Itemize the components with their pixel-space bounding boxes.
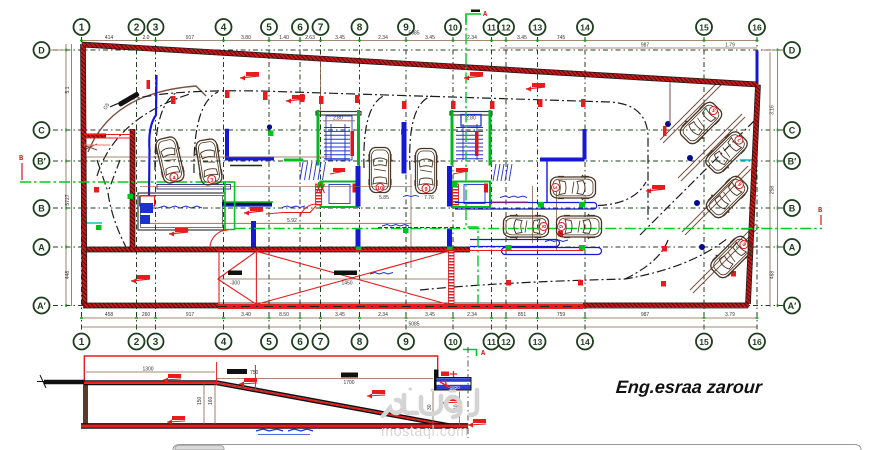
red level flags — [131, 72, 665, 284]
room R1 blue block2 — [140, 215, 150, 224]
section upper slab flat red core — [84, 382, 217, 384]
grid bubble 8 bottom — [352, 334, 368, 350]
svg-text:A′: A′ — [37, 301, 46, 311]
service box G2 inner — [464, 185, 485, 204]
curb bar — [157, 185, 231, 190]
stair core U1 treads — [324, 116, 352, 160]
wheel stop dots — [665, 121, 705, 250]
grid bubble 7 top — [313, 19, 329, 35]
section red flag — [244, 378, 257, 382]
svg-text:10: 10 — [448, 23, 458, 33]
service box G1 red shaft — [316, 184, 322, 205]
svg-text:13: 13 — [533, 337, 543, 347]
grid bubble 9 top — [398, 19, 414, 35]
grid column 12 line — [505, 37, 507, 332]
svg-text:468: 468 — [770, 271, 776, 280]
room R1 red cabinet — [140, 196, 155, 206]
boundary wall top — [82, 45, 759, 85]
stair core U1 right green — [357, 110, 360, 166]
svg-text:B: B — [38, 204, 45, 214]
svg-text:A′: A′ — [788, 301, 797, 311]
svg-text:A: A — [38, 243, 45, 253]
svg-text:3: 3 — [153, 337, 159, 348]
svg-text:-1820: -1820 — [448, 385, 460, 390]
grid column 11 line — [491, 37, 493, 332]
grid bubble B left — [34, 200, 50, 216]
blue label mid — [382, 225, 409, 227]
svg-text:2.80: 2.80 — [466, 116, 476, 122]
blue wall L upper-left — [227, 129, 274, 159]
section right dashed line — [467, 347, 469, 438]
section red flag — [447, 397, 460, 401]
left stub D — [50, 49, 67, 51]
grid bubble A right — [784, 239, 800, 255]
svg-text:7: 7 — [318, 337, 324, 348]
section top boundary line — [84, 356, 437, 383]
grid row Ap line — [53, 305, 786, 307]
svg-text:10: 10 — [448, 337, 458, 347]
blue label small v4 — [403, 195, 419, 196]
svg-text:15: 15 — [699, 337, 709, 347]
drive path lower sweep — [420, 238, 728, 290]
internal wall V1 face lines — [130, 129, 135, 251]
navy wall segment — [222, 202, 272, 205]
svg-text:2.34: 2.34 — [378, 35, 388, 41]
svg-text:5: 5 — [266, 337, 272, 348]
svg-text:5085: 5085 — [408, 31, 419, 37]
grid bubble 11 bottom — [484, 334, 500, 350]
car H2 — [504, 214, 549, 239]
svg-text:1450: 1450 — [341, 281, 352, 287]
section left wall bar — [83, 384, 88, 424]
car H1 — [551, 175, 596, 200]
svg-text:750: 750 — [250, 370, 259, 376]
svg-text:9: 9 — [403, 337, 409, 348]
section street level bar — [44, 380, 84, 385]
dim drop x532 — [532, 186, 534, 243]
grid bubble 7 bottom — [313, 334, 329, 350]
level board blue band top — [437, 378, 471, 382]
right dimension line outer — [777, 52, 779, 307]
drive path entrance arc — [97, 94, 190, 176]
svg-text:D: D — [789, 46, 796, 56]
green square j5 — [268, 131, 274, 137]
car V3 — [368, 148, 393, 193]
boundary wall left face lines — [81, 44, 88, 306]
bottom overall dimension line — [82, 326, 758, 328]
red markers lower — [94, 187, 736, 287]
svg-text:3.80: 3.80 — [241, 35, 251, 41]
blue label walkway — [282, 206, 305, 208]
red underline label — [491, 201, 528, 203]
grid bubble 4 bottom — [216, 334, 232, 350]
ramp left edge — [218, 248, 220, 306]
section line B left — [20, 181, 235, 183]
section red flag — [168, 374, 181, 378]
svg-text:8: 8 — [542, 225, 548, 228]
section line A vertical — [466, 14, 478, 308]
grid bubble 14 bottom — [577, 334, 593, 350]
red V elevator G1 — [317, 184, 325, 193]
section red flag — [372, 390, 385, 394]
car D4 — [707, 232, 756, 281]
svg-text:8.50: 8.50 — [279, 312, 289, 318]
section line B right — [235, 228, 822, 230]
watermark dots — [410, 389, 455, 391]
svg-text:12: 12 — [501, 23, 511, 33]
section line B jog — [234, 182, 236, 229]
grid axis dashed lines — [53, 37, 786, 332]
right stub D — [762, 49, 784, 51]
grid bubble D right — [784, 42, 800, 58]
grid row D line — [53, 49, 786, 51]
blue drain curve — [149, 75, 157, 196]
svg-text:14: 14 — [580, 23, 590, 33]
svg-text:Eng.esraa zarour: Eng.esraa zarour — [615, 377, 763, 397]
svg-text:745: 745 — [557, 35, 566, 41]
svg-text:6: 6 — [557, 225, 563, 228]
svg-text:2.80: 2.80 — [333, 116, 343, 122]
section A bottom marker — [463, 350, 477, 357]
dim drop grid7 — [320, 61, 322, 111]
section level board — [436, 378, 471, 391]
grid column 7 line — [320, 37, 322, 332]
section red flag — [172, 416, 185, 420]
section mid dim verticals — [204, 382, 215, 424]
grid bubble A left — [34, 239, 50, 255]
boundary wall bottom left segment — [83, 303, 218, 308]
boundary wall right face lines — [746, 84, 761, 304]
svg-text:11: 11 — [487, 23, 496, 33]
svg-text:448: 448 — [65, 271, 71, 280]
divider finger C — [455, 203, 597, 210]
blue wall grid16 stub — [756, 51, 759, 85]
blue stub vertical — [251, 221, 256, 250]
svg-text:1: 1 — [79, 23, 85, 34]
stair core U1 dim 2.80 — [323, 120, 355, 122]
ramp dim bar 300 — [228, 271, 242, 276]
grid column 8 line — [359, 37, 361, 332]
grid bubble 9 bottom — [398, 334, 414, 350]
level board blue band bottom — [437, 385, 471, 390]
blue under navy — [222, 205, 272, 207]
internal wall W1 horizontal — [87, 247, 470, 252]
stair core U2 treads — [456, 124, 483, 160]
boundary wall right — [748, 85, 758, 305]
car D3 — [702, 172, 751, 221]
section inner dim line — [86, 371, 215, 373]
svg-text:260: 260 — [142, 312, 151, 318]
grid bubble 2 bottom — [129, 334, 145, 350]
brown line y157 — [85, 156, 332, 158]
column red markers top row — [171, 90, 586, 109]
section B right tick — [820, 215, 822, 225]
service box G2 red mark — [484, 184, 488, 193]
entrance gate brown V — [81, 144, 97, 151]
dimension ticks — [66, 41, 778, 319]
grid bubble 16 top — [749, 19, 765, 35]
svg-text:3.45: 3.45 — [335, 35, 345, 41]
watermark glyph qaf — [446, 397, 460, 411]
svg-text:5085: 5085 — [408, 322, 419, 328]
right dimension line inner — [769, 52, 771, 307]
ramp red wall bar — [449, 251, 455, 304]
boundary wall bottom right segment — [583, 303, 749, 308]
section slope tick2 — [254, 365, 256, 390]
section A top marker — [466, 14, 481, 23]
section dim bar 750 — [227, 369, 247, 374]
footer rounded box — [173, 445, 861, 450]
green room edge rect — [225, 182, 235, 230]
divider finger B — [502, 248, 602, 255]
svg-text:C: C — [789, 126, 796, 136]
left dimension line outer — [65, 44, 67, 306]
svg-text:C: C — [38, 126, 45, 136]
red door arc G1 — [300, 204, 317, 217]
stair core U2 blue lift box — [461, 115, 481, 127]
svg-text:7: 7 — [318, 23, 324, 34]
grid bubble D left — [34, 42, 50, 58]
blue label ramp — [370, 273, 393, 275]
left dimension line inner — [71, 44, 73, 306]
watermark glyph qaf tail — [453, 406, 460, 417]
svg-text:B: B — [789, 204, 796, 214]
service box G1 red mark — [353, 184, 357, 193]
grid row Bp line — [53, 160, 786, 162]
svg-text:12: 12 — [501, 337, 511, 347]
car V2 — [193, 138, 225, 186]
level board red patch — [441, 372, 449, 377]
svg-text:16: 16 — [752, 337, 762, 347]
ramp vertical near g4 — [255, 251, 257, 304]
svg-text:4: 4 — [221, 23, 227, 34]
section dim bar 1700 — [341, 373, 358, 378]
stall arc c2 — [194, 92, 218, 173]
svg-text:30: 30 — [427, 404, 433, 410]
watermark glyph bowl — [421, 396, 441, 414]
ramp dim line — [218, 278, 448, 280]
ramp band dash overlay — [218, 306, 583, 308]
section bottom slab red core — [81, 424, 468, 427]
svg-text:2.0: 2.0 — [143, 35, 150, 41]
brown drop wall16 — [669, 84, 671, 124]
grid bubble 15 bottom — [696, 334, 712, 350]
grid row B line — [53, 207, 786, 209]
svg-text:1: 1 — [79, 337, 85, 348]
section slope start tick — [216, 362, 218, 385]
grid bubble 1 top — [74, 19, 90, 35]
stair core U2 left green — [451, 110, 454, 166]
side stair runs — [300, 162, 512, 181]
svg-text:3.45: 3.45 — [425, 35, 435, 41]
grid bubble 5 top — [261, 19, 277, 35]
black ledge line — [230, 165, 262, 167]
svg-text:3: 3 — [153, 23, 159, 34]
top axis dimension line — [500, 47, 757, 49]
section inner dim right — [216, 378, 433, 380]
grid column 13 line — [537, 37, 539, 332]
svg-text:3.45: 3.45 — [335, 312, 345, 318]
entrance ramp arc brown — [88, 86, 206, 152]
red tick near g15 — [663, 126, 667, 136]
svg-text:3.45: 3.45 — [425, 312, 435, 318]
svg-text:10: 10 — [377, 186, 383, 192]
internal wall H0 — [85, 134, 106, 139]
grid bubble 11 top — [484, 19, 500, 35]
svg-text:1700: 1700 — [343, 380, 354, 386]
grid column 4 line — [223, 37, 225, 332]
grid column 15 line — [703, 37, 705, 332]
stall arc c1 — [155, 92, 178, 170]
svg-text:16: 16 — [752, 23, 762, 33]
grid bubble 8 top — [352, 19, 368, 35]
svg-text:2: 2 — [134, 23, 140, 34]
ramp bottom bright band — [218, 304, 583, 309]
navy dot j5 — [267, 124, 272, 129]
drive path diagonal aisle — [640, 120, 755, 235]
blue wall vertical g9 — [402, 122, 407, 174]
svg-text:3.79: 3.79 — [725, 312, 735, 318]
watermark glyph lam — [470, 390, 477, 415]
grid bubble 13 bottom — [530, 334, 546, 350]
section B left tick — [21, 163, 23, 180]
grid column 2 line — [136, 37, 138, 332]
svg-text:15: 15 — [699, 23, 709, 33]
grid bubble 3 top — [148, 19, 164, 35]
green square on g9 bar — [401, 129, 407, 135]
car V1 — [153, 135, 187, 184]
grid bubble C right — [784, 122, 800, 138]
brown dim y223 — [140, 222, 411, 224]
grid bubble Ap right — [784, 298, 800, 314]
red flag G1 — [333, 168, 345, 172]
svg-text:987: 987 — [641, 43, 650, 49]
stair core U2 top bar — [450, 112, 492, 116]
grid bubble 10 bottom — [445, 334, 461, 350]
grid bubble 3 bottom — [148, 334, 164, 350]
svg-text:5.1: 5.1 — [65, 86, 71, 93]
service box G2 red shaft — [453, 184, 459, 205]
grid column 6 line — [299, 37, 301, 332]
entrance arc label (rotated) — [117, 91, 139, 107]
diagonal divider d1 — [660, 80, 723, 143]
svg-text:414: 414 — [105, 35, 114, 41]
grid bubble 12 bottom — [498, 334, 514, 350]
section slope slab — [217, 381, 454, 428]
svg-text:150: 150 — [197, 396, 203, 405]
svg-text:2.34: 2.34 — [378, 312, 388, 318]
stall arc c3 — [364, 95, 386, 168]
grid bubble C left — [34, 122, 50, 138]
svg-text:B′: B′ — [37, 157, 46, 167]
jamb lines left — [84, 135, 131, 146]
car H3 — [557, 214, 602, 239]
section right dim verticals — [433, 392, 460, 427]
grid column 16 line — [756, 37, 758, 332]
svg-text:3.45: 3.45 — [517, 35, 527, 41]
blue wall vertical g8 — [356, 166, 361, 250]
section street cross tick — [37, 375, 49, 388]
svg-text:2.34: 2.34 — [467, 35, 477, 41]
svg-text:458: 458 — [105, 312, 114, 318]
svg-text:3.16: 3.16 — [770, 105, 776, 115]
section A top tick — [471, 10, 480, 13]
stair core U1 top bar — [316, 112, 361, 116]
boundary wall top face lines — [82, 42, 759, 87]
svg-text:5.85: 5.85 — [379, 195, 389, 201]
svg-text:8: 8 — [357, 337, 363, 348]
car V4 — [414, 149, 439, 194]
svg-text:987: 987 — [641, 312, 650, 318]
internal wall V1 vertical — [130, 129, 135, 251]
svg-text:-300: -300 — [230, 281, 240, 287]
svg-text:851: 851 — [518, 312, 527, 318]
grid bubble Bp right — [784, 153, 800, 169]
boundary wall bottom face lines — [83, 303, 748, 308]
svg-text:D: D — [38, 46, 45, 56]
section upper slab flat — [84, 381, 217, 385]
footer tab — [175, 446, 224, 450]
room R1 inner border — [141, 196, 223, 228]
service box G1 inner — [329, 185, 350, 204]
blue label right — [545, 240, 568, 242]
stall arc c4 — [410, 96, 432, 170]
red flag G2 — [456, 168, 468, 172]
divider riser — [546, 161, 548, 203]
grid column 14 line — [584, 37, 586, 332]
svg-text:1.79: 1.79 — [725, 43, 735, 49]
svg-text:917: 917 — [186, 312, 195, 318]
brown line y186.7 — [140, 186, 412, 188]
dim drop mid x411 — [410, 174, 412, 268]
svg-text:5.92: 5.92 — [287, 218, 297, 224]
section slope red core — [217, 383, 453, 427]
svg-text:258: 258 — [770, 186, 776, 195]
internal wall W1 face lines — [87, 247, 470, 252]
grid bubble Bp left — [34, 153, 50, 169]
svg-text:1300: 1300 — [142, 367, 153, 373]
grid bubble 1 bottom — [74, 334, 90, 350]
ramp door swing — [210, 230, 228, 248]
grid bubble 14 top — [577, 19, 593, 35]
ramp dim bar 1450 — [334, 271, 357, 276]
stair core U1 left green — [317, 110, 320, 166]
svg-text:917: 917 — [186, 35, 195, 41]
grid column 9 line — [405, 37, 407, 332]
svg-text:2: 2 — [134, 337, 140, 348]
svg-text:2.34: 2.34 — [467, 312, 477, 318]
svg-text:11: 11 — [487, 337, 496, 347]
svg-text:1.40: 1.40 — [279, 35, 289, 41]
drive path lower branch — [625, 240, 668, 279]
service box G1 — [321, 182, 359, 208]
grid bubble 10 top — [445, 19, 461, 35]
svg-text:13: 13 — [533, 23, 543, 33]
grid row C line — [53, 129, 786, 131]
green bar right of L — [284, 159, 303, 162]
section end wall black — [434, 370, 439, 391]
bottom axis dimension line — [82, 317, 758, 319]
top overall dimension line — [82, 40, 758, 42]
section bottom slab — [81, 424, 468, 428]
ramp apex lines — [218, 251, 257, 304]
grid bubble 6 bottom — [292, 334, 308, 350]
grid bubble Ap left — [34, 298, 50, 314]
svg-text:A: A — [789, 243, 796, 253]
stair core U1 red flight bar — [351, 131, 355, 156]
grid column 5 line — [268, 37, 270, 332]
dim drop grid x670 — [669, 80, 671, 123]
